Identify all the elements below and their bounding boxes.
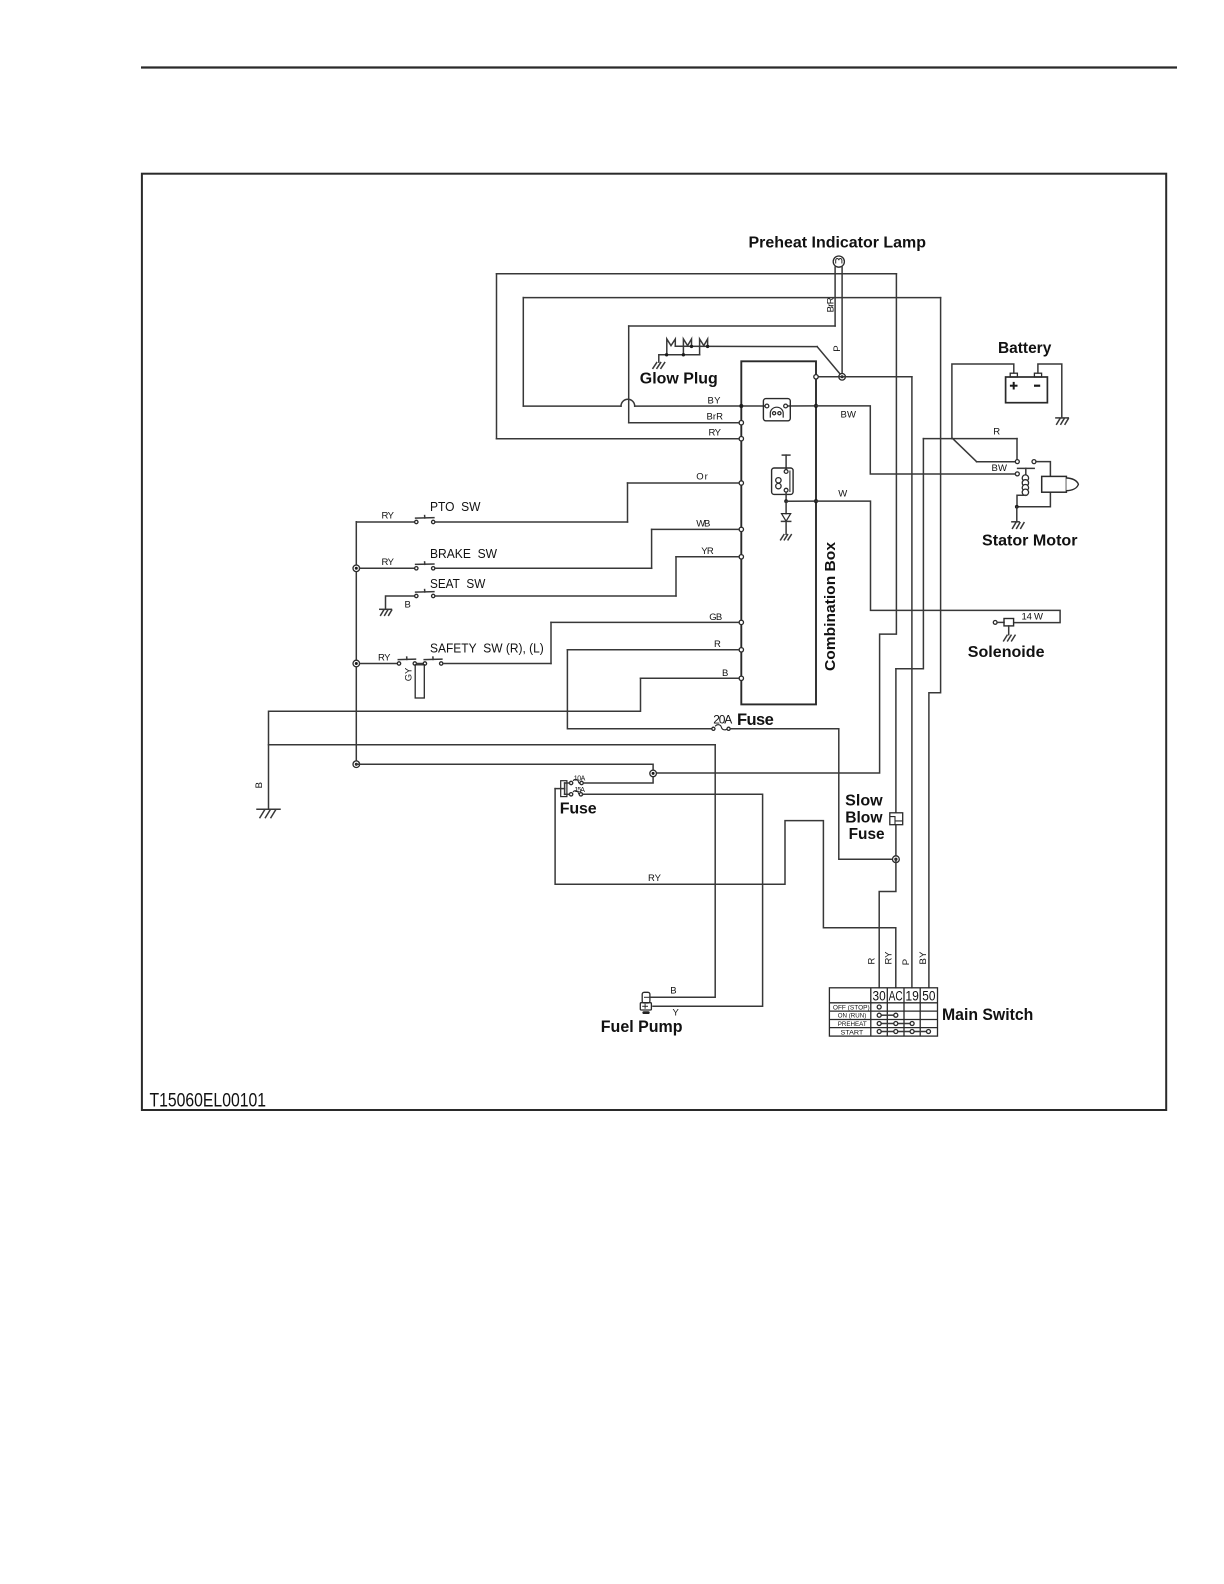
junction dot box right BW [814,404,818,408]
node2 connector [650,770,657,777]
wire P long vertical to main switch 19 [911,377,913,988]
node bus safety row [353,660,360,667]
wire W inside box [786,500,814,502]
svg-text:OFF (STOP): OFF (STOP) [833,1004,870,1011]
wire RY top loop left vertical [496,274,498,439]
svg-text:T15060EL00101: T15060EL00101 [150,1089,267,1111]
svg-text:GY: GY [404,667,415,681]
fuel pump FP1 [640,992,651,1014]
switch SAFETY SW (L) [417,657,551,665]
wire battery plus lead [952,364,1014,439]
battery BT1 [1006,373,1048,403]
svg-text:PREHEAT: PREHEAT [838,1021,867,1028]
starter solenoid contact bar [1018,467,1035,469]
node bus bottom [353,761,360,768]
wire BrR horizontal [629,325,835,327]
junction dot glow bus M2 [690,345,693,348]
wire R through slow blow fuse [895,669,897,859]
svg-text:SAFETY SW (R), (L): SAFETY SW (R), (L) [430,640,544,655]
fuse holder left bracket [561,781,567,797]
svg-text:RY: RY [884,951,895,965]
wire WB row [652,528,740,530]
svg-text:P: P [901,959,912,965]
wire B row [641,677,740,679]
wire P lamp right lead [841,267,843,374]
wire R battery to relay and main switch [896,439,1017,669]
svg-text:ON (RUN): ON (RUN) [838,1013,867,1020]
svg-text:20A: 20A [713,712,732,726]
wire 15A fuse to fuel pump Y [583,794,763,1006]
svg-text:Y: Y [673,1008,680,1019]
ground battery [1056,418,1068,424]
svg-text:Solenoide: Solenoide [968,644,1045,661]
relay K1 preheat relay [763,399,790,421]
wire R node to main switch 30 [879,859,896,988]
svg-text:RY: RY [648,873,662,884]
svg-text:30: 30 [873,988,886,1003]
node P junction [839,374,846,381]
fuse 20A symbol [712,723,730,731]
top horizontal rule [141,66,1177,68]
switch SEAT SW [386,590,677,609]
wire Or row [628,482,740,484]
wire GB riser [550,622,552,663]
wire glow plug lower bus [659,355,700,362]
ground diode [781,535,792,540]
wire B from box to ground [269,678,641,809]
wire RY left bus [355,522,357,764]
svg-text:R: R [993,427,1000,438]
label Slow Blow Fuse [845,793,884,844]
terminal circle box right P [814,375,818,379]
wire YR row [676,556,739,558]
svg-text:Fuse: Fuse [737,711,774,729]
wire BrR vertical [628,326,630,423]
wire Or riser [627,483,629,522]
wire BY inside box [744,405,766,407]
svg-text:Fuse: Fuse [849,826,885,843]
svg-text:GB: GB [709,612,722,623]
svg-text:PTO SW: PTO SW [430,499,481,514]
relay K2 safety relay [772,455,794,501]
wire fuse common left [555,783,569,794]
main switch contact circles row OFF [877,1005,881,1009]
node slow blow to 20A [893,856,900,863]
diode D1 [782,501,791,534]
wire contact to motor [1036,462,1050,477]
svg-text:B: B [405,600,411,611]
wire GB row [551,621,739,623]
wire BY row with jump over BrR [523,399,739,406]
svg-text:WB: WB [696,518,710,529]
wire B horizontal to fuel pump riser [269,744,716,746]
svg-text:B: B [722,668,728,679]
junction dot relay K2 to W [784,499,788,503]
svg-text:START: START [841,1029,864,1036]
wire to ground [1016,507,1018,522]
svg-text:BY: BY [918,951,929,965]
glow plug element 1 [667,339,676,355]
starter solenoid contact terminals [1015,460,1019,464]
main switch table [829,988,937,1036]
outer diagram frame [142,174,1166,1110]
junction dot box right W [814,499,818,503]
svg-text:SEAT SW: SEAT SW [430,576,486,591]
svg-text:BrR: BrR [707,412,724,423]
svg-text:Fuel Pump: Fuel Pump [601,1018,683,1036]
wire motor bottom loop [1017,492,1051,507]
svg-text:Or: Or [696,472,708,483]
wire glow plug top bus [675,345,817,347]
svg-text:Blow: Blow [845,809,883,826]
svg-text:14 W: 14 W [1022,612,1044,623]
svg-text:P: P [832,345,843,351]
wire P diagonal from glow plug bus to node [817,347,842,376]
wire RY top loop horizontal [497,273,897,275]
svg-text:RY: RY [382,557,395,568]
svg-text:R: R [867,958,878,965]
terminal circles box left edge [739,404,743,681]
wire YR riser [675,557,677,596]
main switch contacts row PREHEAT [877,1022,914,1026]
svg-text:BRAKE SW: BRAKE SW [430,546,498,561]
wire coil bottom to ground junction [1017,495,1026,507]
svg-text:AC: AC [889,988,903,1003]
wire BrR lamp left lead [834,267,836,326]
svg-text:B: B [254,782,265,788]
svg-text:BrR: BrR [826,297,837,312]
svg-text:Battery: Battery [998,340,1051,357]
wire RY row [497,438,740,440]
wire 20A fuse to slow blow node [730,729,892,859]
svg-text:B: B [670,985,676,996]
main switch contacts row ON [877,1013,898,1017]
solenoid SL1 [993,619,1013,635]
svg-text:Glow Plug: Glow Plug [640,370,718,387]
wire BW from box to starter coil [816,406,1015,474]
main switch position labels [833,1004,870,1036]
wire BrR row [629,422,739,424]
wire R riser from box row to fuse [567,650,711,729]
wire BY left vertical [522,298,524,407]
main switch header terminals [873,988,936,1003]
switch BRAKE SW [360,562,652,570]
combination box outline [741,361,816,704]
preheat indicator lamp L1 [833,256,844,267]
svg-text:Stator Motor: Stator Motor [982,533,1078,550]
svg-text:Preheat Indicator Lamp: Preheat Indicator Lamp [749,234,927,251]
wire B fuel pump riser [650,745,715,998]
svg-text:50: 50 [922,988,935,1003]
fuse 15A [569,790,583,797]
ground main B [257,809,280,817]
junction dot glow bus M3 [706,345,709,348]
svg-text:RY: RY [382,511,395,522]
svg-text:19: 19 [905,988,919,1003]
junction dot motor ground [1015,505,1019,509]
svg-text:BW: BW [992,463,1008,474]
wire R row [567,649,739,651]
svg-text:R: R [714,639,721,650]
junction dot glow lower M2 [682,353,685,356]
svg-text:Main Switch: Main Switch [942,1006,1033,1024]
ground solenoid [1004,635,1016,641]
svg-text:Fuse: Fuse [560,801,597,818]
node bus brake row [353,565,360,572]
wire 10A fuse to node2 riser [356,764,653,783]
switch SAFETY SW (R) [360,657,417,665]
switch PTO SW [356,516,627,524]
ground glow plug [653,363,665,369]
connector GY block [415,665,424,698]
starter solenoid coil [1022,475,1028,496]
wire RY loop right vertical with jog [653,274,896,773]
svg-text:YR: YR [701,546,714,557]
main switch contacts row START [877,1030,930,1034]
svg-text:BY: BY [708,395,722,406]
wire W from box to solenoid [816,501,1060,622]
wire RY from fuse common to main switch AC [555,789,896,988]
wire WB riser [651,529,653,568]
wire BY right vertical [929,298,941,988]
fuse slow blow symbol [890,813,903,825]
svg-text:W: W [838,488,847,499]
glow plug element 2 [683,339,691,355]
ground seat switch [380,609,392,615]
ground stator motor [1012,522,1024,529]
junction dot glow lower M1 [665,353,668,356]
fuse 10A [569,778,583,785]
wire battery minus lead [1038,364,1062,418]
wire P horizontal node to right [818,376,912,378]
svg-text:BW: BW [841,410,857,421]
svg-text:RY: RY [709,427,722,438]
svg-text:RY: RY [378,652,391,663]
svg-text:Combination Box: Combination Box [823,542,839,671]
wire BY top horizontal [523,297,940,299]
motor M body [1042,476,1079,492]
glow plug element 3 [700,339,708,355]
svg-text:Slow: Slow [845,793,883,810]
